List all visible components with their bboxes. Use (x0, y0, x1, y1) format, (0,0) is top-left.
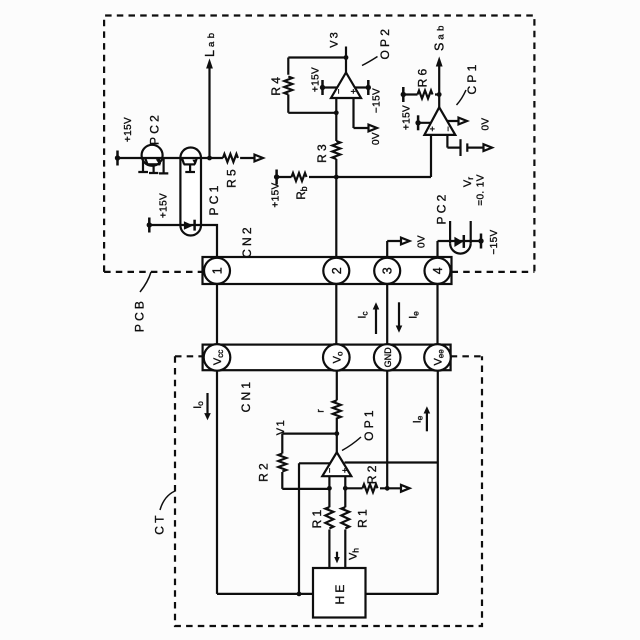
svg-text:OP2: OP2 (378, 26, 392, 60)
svg-text:CP1: CP1 (465, 62, 479, 95)
svg-text:=0. 1V: =0. 1V (476, 174, 487, 206)
svg-text:2: 2 (330, 267, 344, 274)
svg-text:−: − (443, 126, 453, 131)
svg-text:V1: V1 (275, 419, 287, 435)
svg-text:1: 1 (211, 267, 225, 274)
svg-text:+: + (340, 468, 350, 473)
svg-text:R6: R6 (416, 66, 430, 88)
svg-text:+: + (427, 126, 437, 131)
svg-text:Lab: Lab (203, 33, 217, 57)
svg-text:+15V: +15V (402, 105, 413, 130)
svg-text:3: 3 (381, 267, 395, 274)
svg-text:CN1: CN1 (239, 379, 253, 413)
svg-text:+15V: +15V (159, 193, 170, 218)
svg-text:0V: 0V (417, 235, 428, 248)
svg-text:+: + (349, 89, 359, 94)
svg-text:R2: R2 (257, 460, 271, 482)
svg-text:PCB: PCB (133, 298, 147, 332)
svg-text:+15V: +15V (123, 117, 134, 142)
svg-text:R5: R5 (225, 166, 239, 188)
svg-text:PC1: PC1 (207, 183, 221, 216)
svg-text:Sab: Sab (433, 26, 447, 51)
svg-text:0V: 0V (371, 132, 382, 145)
svg-text:HE: HE (333, 581, 347, 604)
svg-text:0V: 0V (481, 117, 492, 130)
svg-text:CT: CT (153, 512, 167, 534)
svg-text:CN2: CN2 (240, 224, 254, 258)
svg-text:−15V: −15V (489, 229, 500, 254)
svg-text:+15V: +15V (311, 67, 322, 92)
svg-text:R3: R3 (315, 141, 329, 163)
svg-text:GND: GND (383, 347, 393, 368)
svg-text:V3: V3 (329, 30, 341, 47)
svg-text:−15V: −15V (372, 88, 383, 113)
svg-text:−: − (333, 89, 343, 94)
svg-text:+15V: +15V (271, 182, 282, 207)
svg-text:R2: R2 (365, 462, 379, 484)
svg-text:R1: R1 (310, 507, 324, 529)
svg-text:PC2: PC2 (435, 192, 449, 225)
svg-text:R4: R4 (269, 74, 283, 96)
svg-text:4: 4 (431, 267, 445, 274)
svg-text:R1: R1 (356, 506, 370, 528)
svg-text:PC2: PC2 (148, 112, 162, 145)
svg-text:OP1: OP1 (362, 407, 376, 441)
svg-text:−: − (325, 468, 335, 473)
